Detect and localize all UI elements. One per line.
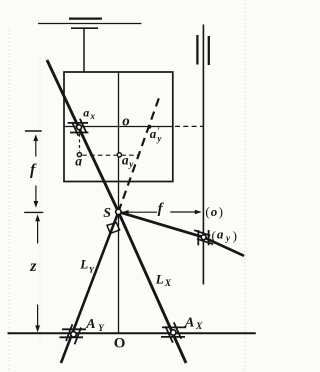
focal length arrow right head bbox=[195, 210, 202, 214]
ground line bbox=[8, 332, 256, 334]
svg-text:z: z bbox=[29, 258, 37, 275]
svg-text:X: X bbox=[195, 322, 203, 332]
marker (a_y) circle bbox=[201, 235, 206, 240]
box center vertical axis down to ground bbox=[118, 72, 120, 333]
faint grid column right bbox=[244, 0, 246, 372]
point a_y circle bbox=[117, 153, 121, 157]
ray L_X upper segment through a_x bbox=[47, 60, 118, 212]
svg-text:L: L bbox=[79, 257, 88, 272]
right rail left bar bbox=[196, 35, 198, 65]
faint grid column mid-left bbox=[39, 58, 41, 345]
ray L_Y solid lower segment bbox=[61, 212, 118, 363]
svg-text:(: ( bbox=[212, 228, 216, 243]
marker A_Y circle bbox=[71, 332, 76, 337]
point a circle bbox=[77, 153, 81, 157]
marker A_X circle bbox=[171, 330, 176, 335]
svg-text:X: X bbox=[164, 279, 172, 289]
marker a_x hatch bars bbox=[68, 119, 89, 136]
top support lower bar bbox=[71, 27, 98, 29]
svg-text:Y: Y bbox=[89, 265, 95, 275]
svg-text:a: a bbox=[75, 153, 82, 168]
svg-text:): ) bbox=[233, 228, 237, 243]
point a'_y dot bbox=[148, 125, 152, 129]
shallow ray S to rail point bbox=[118, 212, 244, 256]
svg-text:A: A bbox=[184, 316, 194, 331]
svg-text:A: A bbox=[85, 317, 95, 332]
svg-text:a: a bbox=[150, 126, 157, 141]
image-plane box bbox=[64, 72, 173, 182]
right-angle mark at S bbox=[107, 223, 120, 234]
left dim down arrow at ground bbox=[37, 305, 39, 327]
marker a_x circle bbox=[77, 125, 82, 130]
ray L_Y dashed extension through a'_y bbox=[118, 95, 160, 212]
right rail main line bbox=[202, 25, 204, 285]
right rail right bar bbox=[208, 36, 210, 65]
marker (a_y) hatch bars bbox=[194, 230, 213, 245]
dashed drop a_x to a bbox=[79, 134, 81, 151]
svg-text:O: O bbox=[114, 336, 126, 352]
dashed midline extension to rail bbox=[175, 125, 203, 127]
marker A_X hatch bars bbox=[161, 322, 186, 342]
left dim up arrow under tick2 bbox=[35, 214, 40, 221]
focal length arrow left head bbox=[122, 210, 129, 214]
projection centre S circle bbox=[116, 209, 121, 214]
left dim down arrow above tick2 bbox=[35, 186, 37, 203]
svg-text:a: a bbox=[122, 152, 129, 167]
svg-text:a: a bbox=[83, 106, 89, 120]
svg-text:o: o bbox=[211, 204, 218, 219]
box horizontal midline axis bbox=[64, 126, 173, 128]
focal length arrow right shaft bbox=[170, 211, 195, 213]
marker A_Y hatch bars bbox=[60, 324, 87, 344]
dashed line a to a_y bbox=[82, 154, 139, 156]
svg-text:L: L bbox=[155, 271, 164, 286]
ray L_X lower segment to below ground bbox=[118, 212, 186, 363]
svg-text:): ) bbox=[219, 204, 223, 219]
left dimension tick at S level bbox=[24, 211, 43, 213]
svg-text:x: x bbox=[89, 111, 95, 121]
faint grid column left bbox=[8, 30, 10, 372]
svg-text:(: ( bbox=[205, 204, 209, 219]
svg-text:S: S bbox=[103, 206, 111, 221]
svg-text:a: a bbox=[217, 227, 224, 242]
svg-text:o: o bbox=[122, 114, 130, 130]
focal length arrow S to rail: left shaft bbox=[122, 211, 157, 213]
top support stem wire bbox=[83, 28, 85, 72]
left dimension tick at image plane level bbox=[25, 130, 42, 132]
left dim up arrow under tick1 bbox=[33, 134, 38, 141]
top support upper thick bar bbox=[69, 18, 102, 20]
top support long rail line bbox=[38, 23, 142, 25]
